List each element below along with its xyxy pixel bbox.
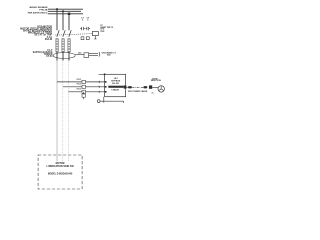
label 60A-M (45, 38, 52, 41)
VFD output connector (124, 86, 127, 89)
ground bus end tick (123, 101, 125, 103)
label FU-2 (77, 84, 82, 86)
label TRIP (100, 31, 105, 33)
VFD ground drop (103, 97, 105, 103)
svg-text:LUBRICATION SKID #02: LUBRICATION SKID #02 (46, 165, 74, 168)
CT1 label (81, 17, 84, 19)
breaker element phase C (68, 39, 70, 52)
motor terminal tick (152, 92, 154, 94)
wire phase B drop (62, 11, 64, 30)
label PHS-3A (39, 9, 47, 12)
cable run (132, 86, 143, 88)
label SET AT 5x TRIP (34, 34, 52, 37)
svg-text:60A-M: 60A-M (45, 38, 52, 41)
label 250HP (152, 78, 158, 80)
ground fuse drop wire (83, 92, 85, 94)
breaker element phase A (56, 39, 58, 52)
trip linkage dashed wire (55, 34, 92, 36)
label SMART TRIP 1XX (100, 26, 114, 29)
node VFD input 3 (105, 91, 107, 93)
smart trip unit box ST (92, 31, 98, 35)
breaker CB blade phase C (69, 30, 71, 37)
terminal tick 3 (98, 91, 100, 93)
label FU-3 (77, 89, 82, 91)
wire phase C through toroid (68, 52, 70, 61)
relay output wire pair (89, 54, 98, 56)
motor M1 circle (158, 86, 164, 92)
label CHECK (111, 89, 119, 91)
svg-text:MOTOR: MOTOR (56, 162, 65, 165)
ground bus wire (100, 100, 124, 102)
motor terminal connector (149, 85, 152, 88)
label PER SWGR DWG 2 (28, 12, 48, 14)
ground fuse box (82, 94, 85, 97)
fuse F3 (82, 90, 86, 93)
label LUBRICATION SKID #02 (46, 165, 74, 168)
label TOROID (44, 54, 53, 56)
fuse F2 (82, 85, 86, 88)
CT2 coil box (86, 37, 89, 40)
wire to motor (152, 86, 158, 88)
VFD enclosure box (105, 74, 126, 96)
label ULC (114, 78, 119, 80)
svg-text:CT-50: CT-50 (46, 56, 53, 58)
wire phase A dotted run (56, 61, 58, 162)
breaker CB blade phase A (57, 30, 59, 37)
label CL-T (47, 50, 53, 52)
bus B (48, 10, 81, 12)
svg-text:TRIP: TRIP (100, 31, 105, 33)
wire phase A drop (56, 9, 58, 30)
node tap phase B (62, 10, 64, 12)
label MOTOR (56, 162, 65, 165)
fuse branch wire 2 (63, 86, 105, 88)
label MAGNETIC LS TRIPS (28, 32, 53, 35)
svg-text:BL-2N: BL-2N (112, 83, 119, 85)
motor star spokes (159, 86, 164, 90)
CT1 contact (80, 27, 85, 30)
label MOTOR CIRCUIT BREAKER (20, 27, 52, 30)
label INDUCTION (151, 80, 162, 82)
fuse branch wire 3 (68, 91, 104, 93)
label MODEL D MODAB-845 (48, 172, 73, 175)
svg-text:CHECK: CHECK (111, 89, 119, 91)
svg-text:ULC: ULC (114, 78, 119, 80)
CT1 coil box (81, 37, 84, 40)
terminal tick 1 (98, 81, 100, 83)
VFD corner stub wire (99, 73, 105, 75)
CT2 contact (86, 27, 91, 30)
wire phase A through toroid (56, 52, 58, 61)
ground fuse stub (83, 97, 85, 99)
wire phase C drop (68, 14, 70, 31)
label ST (100, 25, 103, 27)
earth leakage toroid CT (53, 53, 75, 59)
wire phase C dotted run (67, 61, 69, 162)
svg-text:CPU: CPU (100, 29, 105, 31)
svg-text:PER SWGR DWG 2: PER SWGR DWG 2 (28, 12, 48, 14)
label 50G (78, 53, 82, 55)
wire phase B dotted run (62, 61, 64, 162)
svg-text:TOROID: TOROID (44, 54, 53, 56)
bus A (48, 8, 83, 10)
label BL-2N (112, 83, 119, 85)
label VFD POWER CABLE (128, 90, 148, 93)
svg-text:50/5: 50/5 (107, 55, 111, 57)
label GROUNDED CT (102, 53, 117, 55)
ground relay box (84, 53, 89, 58)
ground indicator circle (97, 100, 100, 103)
toroid secondary wire (75, 53, 84, 55)
node tap phase A (56, 8, 58, 10)
cable termination 2 (143, 86, 147, 88)
label BYPASS (111, 80, 120, 83)
svg-text:GROUNDED CT: GROUNDED CT (102, 53, 117, 55)
node VFD input 2 (105, 86, 107, 88)
cable lead from VFD (126, 86, 128, 88)
breaker element phase B (62, 39, 64, 52)
fuse F1 (82, 80, 86, 83)
label EARTH LEAKAGE (33, 51, 53, 54)
label CT-50 (46, 56, 53, 58)
bus C (48, 13, 83, 15)
brace to label (99, 52, 101, 57)
node VFD corner (104, 73, 106, 75)
label 50/5 (107, 55, 111, 57)
smart trip lead (94, 36, 96, 39)
label SHUNT INSTANTANEOUS (23, 30, 53, 33)
VFD isolation bar (108, 86, 123, 88)
svg-text:CL-T: CL-T (47, 50, 53, 52)
node VFD input 1 (105, 81, 107, 83)
label CPU (100, 29, 105, 31)
label 480VAC BUSBAR (29, 6, 47, 9)
node tap phase C (68, 13, 71, 15)
terminal tick 2 (98, 86, 100, 88)
lubrication skid dashed enclosure (38, 155, 82, 189)
cable termination 1 (128, 86, 132, 88)
svg-text:INDUCTION: INDUCTION (151, 80, 162, 82)
fuse branch wire 1 (57, 81, 105, 83)
breaker CB blade phase B (63, 30, 65, 37)
wire phase B through toroid (62, 52, 64, 61)
CT2 label (86, 17, 89, 19)
label FU-1 (77, 79, 82, 81)
label breaker block PCB-MOTOR (37, 25, 52, 28)
svg-text:250HP: 250HP (152, 78, 158, 80)
label F-1 (47, 36, 53, 39)
